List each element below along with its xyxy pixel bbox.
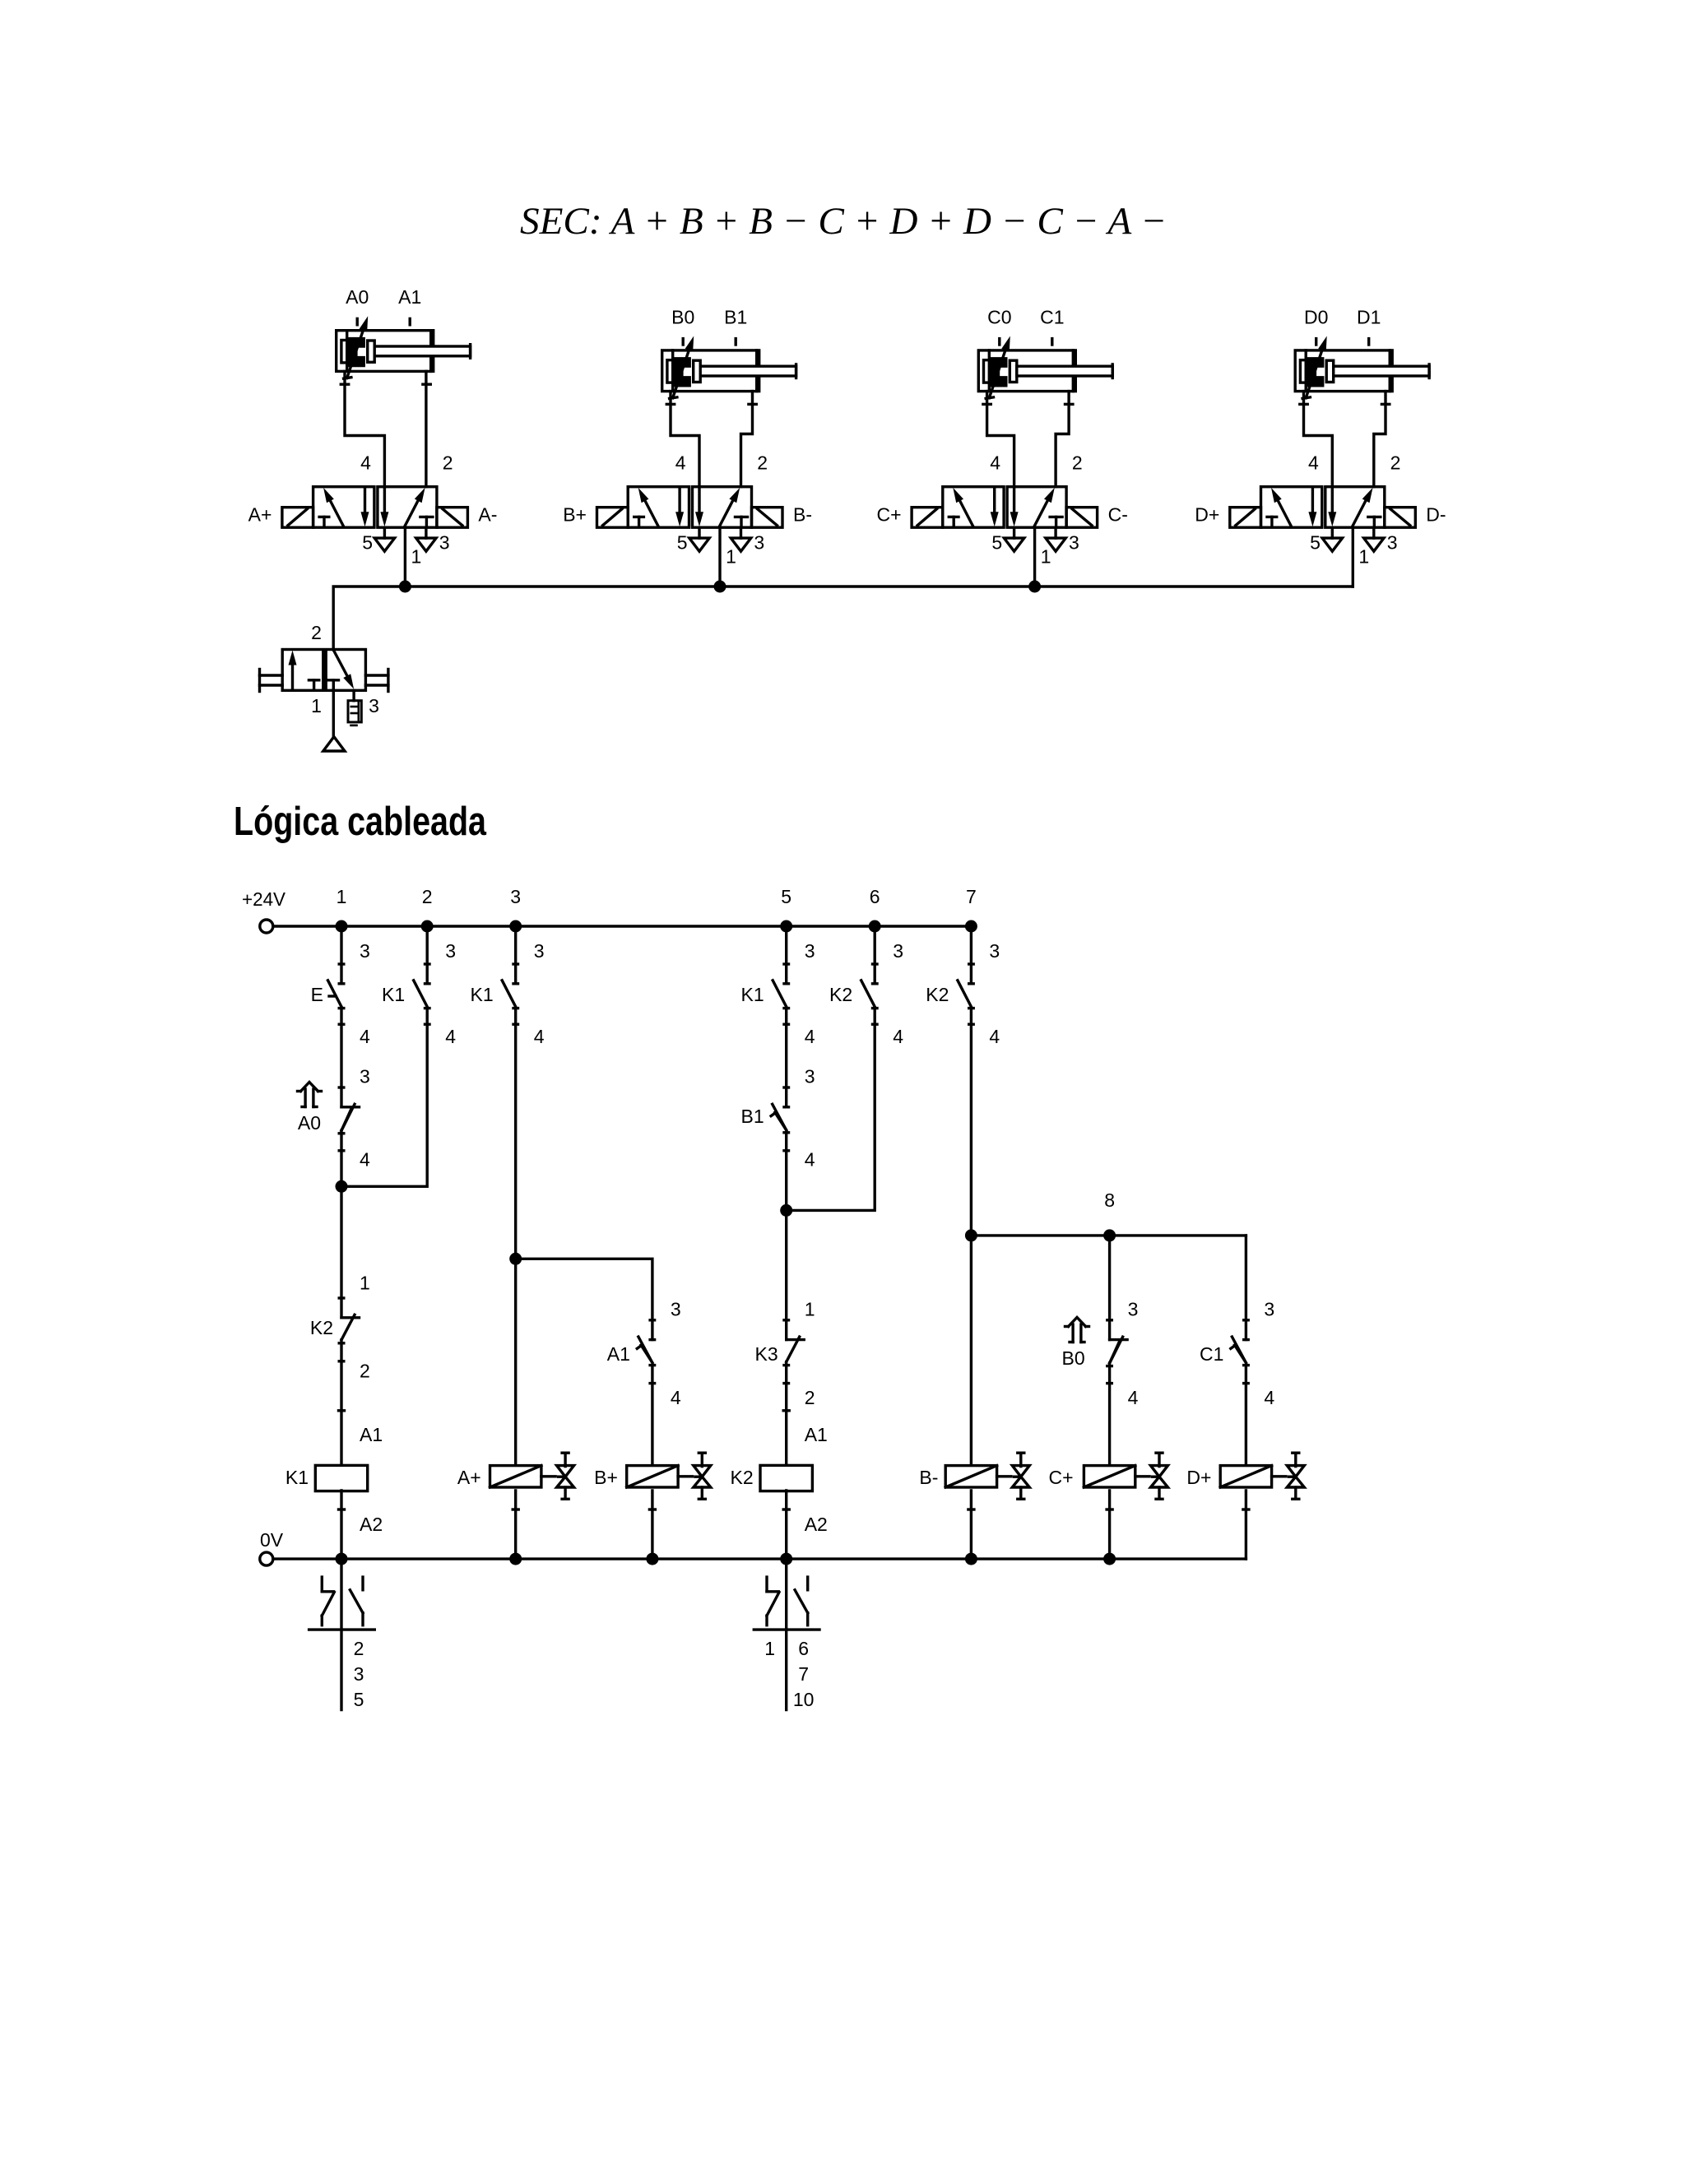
wire cylinder A left port to valve port 4 [345, 371, 384, 486]
svg-text:D-: D- [1426, 504, 1446, 526]
junction rung7 / branch bus [965, 1229, 977, 1241]
svg-text:K1: K1 [471, 984, 494, 1005]
svg-text:3: 3 [369, 695, 379, 716]
svg-text:3: 3 [445, 940, 456, 962]
svg-text:1: 1 [337, 886, 347, 907]
relay coil K1 [315, 1465, 367, 1491]
actuated marker (arrow) for B0 [1065, 1318, 1089, 1342]
rung 4 wire (solenoid to 0V) [651, 1491, 653, 1559]
svg-text:K2: K2 [310, 1317, 333, 1338]
svg-text:K2: K2 [731, 1467, 754, 1488]
sensor position tick D1 [1367, 339, 1370, 345]
detent lever left [260, 670, 283, 692]
svg-text:4: 4 [671, 1387, 681, 1408]
branch bus wire rung7 to C1 branch [971, 1234, 1246, 1236]
svg-text:K2: K2 [926, 984, 949, 1005]
svg-text:+24V: +24V [242, 888, 286, 910]
junction bus / valve B [714, 581, 726, 593]
rung 1 wire (E to A0) [340, 1009, 342, 1107]
svg-text:5: 5 [677, 532, 688, 554]
svg-text:5: 5 [991, 532, 1002, 554]
svg-text:2: 2 [757, 452, 768, 474]
sensor position tick B0 [682, 339, 685, 345]
svg-text:2: 2 [1072, 452, 1083, 474]
svg-text:4: 4 [989, 1026, 1000, 1047]
junction +24V rail / rung 6 [869, 920, 881, 933]
rung 9 wire (C1 to solenoid D+) [1245, 1366, 1247, 1464]
limit switch contact C1 (NO) [1231, 1320, 1248, 1384]
contact K1 rung3 (NO) [502, 964, 518, 1024]
branch wire rung3 to rung4 (A1 branch) [516, 1259, 652, 1339]
svg-text:A0: A0 [346, 286, 369, 308]
svg-text:1: 1 [726, 546, 736, 568]
cylinder port pin ticks [666, 403, 674, 406]
junction 0V / rung7 [965, 1553, 977, 1565]
svg-text:8: 8 [1104, 1189, 1115, 1211]
svg-text:3: 3 [671, 1299, 681, 1320]
limit switch contact A1 (NO) [637, 1320, 654, 1384]
contact K3 (NC) [784, 1320, 804, 1384]
svg-text:A2: A2 [360, 1514, 383, 1535]
svg-text:K2: K2 [829, 984, 852, 1005]
rung 1 wire (coil to 0V) [340, 1491, 342, 1559]
sensor position tick A0 [356, 318, 359, 324]
wire cylinder B right port to valve port 2 [741, 392, 753, 487]
svg-text:2: 2 [443, 452, 453, 474]
rung 2 wire (rail to K1) [426, 926, 429, 984]
junction +24V rail / rung 7 [965, 920, 977, 933]
svg-text:B+: B+ [563, 504, 587, 526]
junction +24V rail / rung 1 [336, 920, 348, 933]
cylinder port pin ticks [983, 403, 991, 406]
relay coil K2 [760, 1465, 812, 1491]
pin tick C+ [1107, 1508, 1112, 1510]
svg-text:3: 3 [360, 1066, 370, 1087]
junction 0V / rung8 [1103, 1553, 1116, 1565]
pin tick D+ [1243, 1508, 1249, 1510]
sensor position tick A1 [409, 318, 411, 324]
exhaust port 5 [374, 527, 394, 551]
svg-text:3: 3 [1387, 532, 1398, 554]
svg-text:2: 2 [311, 622, 322, 643]
svg-text:4: 4 [805, 1149, 815, 1171]
supply bus wire [333, 587, 1353, 650]
exhaust port 3 [731, 527, 750, 551]
svg-text:K1: K1 [382, 984, 405, 1005]
svg-text:3: 3 [1264, 1299, 1274, 1320]
rung 1 wire (K2 to coil K1) [340, 1340, 342, 1464]
junction 0V / rung5 [780, 1553, 792, 1565]
muffler on port 3 [348, 690, 361, 726]
svg-text:3: 3 [805, 940, 815, 962]
svg-text:Lógica cableada: Lógica cableada [234, 800, 487, 844]
svg-text:C+: C+ [877, 504, 902, 526]
exhaust port 5 [1322, 527, 1342, 551]
pilot solenoid C+ [912, 508, 943, 528]
contact E (NO) [328, 964, 344, 1024]
svg-text:B0: B0 [1062, 1347, 1085, 1369]
svg-text:2: 2 [805, 1387, 815, 1408]
svg-text:4: 4 [675, 452, 686, 474]
+24V supply rail [260, 920, 273, 933]
svg-text:B+: B+ [594, 1467, 618, 1488]
svg-text:B-: B- [793, 504, 812, 526]
svg-text:4: 4 [990, 452, 1000, 474]
svg-text:A2: A2 [805, 1514, 828, 1535]
cylinder D (double-acting, magnetic piston) [1295, 336, 1429, 399]
svg-text:6: 6 [798, 1638, 809, 1659]
svg-text:1: 1 [360, 1273, 370, 1294]
valve solenoid C+ [1084, 1453, 1167, 1499]
wire cylinder D left port to valve port 4 [1304, 392, 1333, 487]
rung 8 wire (B0 to solenoid C+) [1108, 1363, 1111, 1464]
svg-text:5: 5 [1310, 532, 1321, 554]
svg-text:4: 4 [893, 1026, 903, 1047]
junction 0V / rung4 [646, 1553, 658, 1565]
svg-text:3: 3 [510, 886, 521, 907]
svg-text:A+: A+ [457, 1467, 481, 1488]
svg-text:10: 10 [793, 1689, 815, 1710]
5/2-way valve VC [943, 487, 1066, 528]
rung 3 wire (solenoid to 0V) [514, 1491, 517, 1559]
svg-text:3: 3 [354, 1663, 364, 1685]
svg-text:B0: B0 [671, 306, 694, 327]
svg-text:1: 1 [311, 695, 322, 716]
junction 0V / rung1 [336, 1553, 348, 1565]
rung 7 wire (rail to K2) [970, 926, 972, 984]
0V return rail [260, 1552, 273, 1565]
actuated marker (arrow) for A0 [298, 1083, 322, 1107]
svg-text:D1: D1 [1357, 306, 1381, 327]
svg-text:1: 1 [411, 546, 422, 568]
rung 5 wire (K1 to B1) [785, 1009, 787, 1107]
svg-text:5: 5 [354, 1689, 364, 1710]
junction bus / valve A [399, 581, 411, 593]
svg-text:3: 3 [805, 1066, 815, 1087]
junction 0V / rung3 [509, 1553, 522, 1565]
junction +24V rail / rung 5 [780, 920, 792, 933]
svg-text:4: 4 [445, 1026, 456, 1047]
contact K2 rung7 (NO) [958, 964, 973, 1024]
wire valve D port 1 to supply bus [1352, 527, 1354, 587]
svg-text:K1: K1 [285, 1467, 309, 1488]
svg-text:3: 3 [754, 532, 764, 554]
rung 2 wire (K1 down and left to rung1 junction) [341, 1009, 427, 1187]
5/2-way valve VD [1261, 487, 1385, 528]
cylinder B (double-acting, magnetic piston) [662, 336, 796, 399]
exhaust port 3 [1364, 527, 1384, 551]
wire cylinder C right port to valve port 2 [1056, 392, 1069, 487]
5/2-way valve VA [313, 487, 437, 528]
svg-text:K1: K1 [741, 984, 764, 1005]
svg-text:B1: B1 [741, 1106, 764, 1127]
svg-text:A+: A+ [248, 504, 272, 526]
pilot solenoid D- [1385, 508, 1416, 528]
limit switch contact B1 (NO) [771, 1087, 788, 1151]
5/2-way valve VB [628, 487, 751, 528]
junction +24V rail / rung 2 [421, 920, 434, 933]
valve solenoid A+ [490, 1453, 574, 1499]
svg-text:D0: D0 [1304, 306, 1328, 327]
sensor position tick C0 [998, 339, 1000, 345]
contact K2 rung6 (NO) [861, 964, 877, 1024]
svg-text:C1: C1 [1040, 306, 1064, 327]
wire valve C port 1 to supply bus [1033, 527, 1036, 587]
sensor position tick B1 [735, 339, 737, 345]
pin tick K1 [339, 1508, 345, 1510]
compressed air source [323, 737, 345, 751]
valve solenoid B+ [627, 1453, 711, 1499]
limit switch contact B0 (actuated) [1107, 1320, 1127, 1384]
svg-text:C0: C0 [987, 306, 1011, 327]
svg-text:3: 3 [360, 940, 370, 962]
wire cylinder D right port to valve port 2 [1374, 392, 1386, 487]
rung 5 wire (B1 to junction) [785, 1133, 787, 1211]
svg-text:B-: B- [919, 1467, 938, 1488]
svg-text:B1: B1 [724, 306, 747, 327]
rung 1 wire (rail to E) [340, 926, 342, 984]
valve solenoid D+ [1220, 1453, 1304, 1499]
svg-text:3: 3 [534, 940, 545, 962]
wire valve B port 1 to supply bus [718, 527, 721, 587]
pin tick K2 [783, 1508, 789, 1510]
pilot solenoid B- [752, 508, 783, 528]
sensor position tick C1 [1051, 339, 1053, 345]
wire joint tick [339, 1409, 345, 1412]
svg-text:7: 7 [966, 886, 977, 907]
svg-text:3: 3 [1128, 1299, 1139, 1320]
wire joint tick [783, 1409, 789, 1412]
rung 5 wire (coil to 0V) [785, 1491, 787, 1559]
svg-text:7: 7 [798, 1663, 809, 1685]
svg-text:SEC: A + B + B − C + D + D − C: SEC: A + B + B − C + D + D − C − A − [520, 200, 1167, 243]
svg-text:C-: C- [1108, 504, 1128, 526]
rung 1 wire (A0 to junction) [340, 1130, 342, 1186]
pilot solenoid A- [437, 508, 468, 528]
rung 3 wire (rail to K1) [514, 926, 517, 984]
svg-text:A1: A1 [398, 286, 421, 308]
pilot solenoid A+ [282, 508, 313, 528]
junction rung3 / branch rung4 [509, 1253, 522, 1265]
rung 5 wire (K3 to coil K2) [785, 1362, 787, 1464]
svg-text:4: 4 [360, 1149, 370, 1171]
svg-text:D+: D+ [1186, 1467, 1211, 1488]
rung 7 wire (solenoid to 0V) [970, 1491, 972, 1559]
cylinder C (double-acting, magnetic piston) [978, 336, 1112, 399]
svg-text:1: 1 [1358, 546, 1369, 568]
relay contact cross-reference K1 [309, 1559, 375, 1710]
svg-text:3: 3 [893, 940, 903, 962]
svg-text:A1: A1 [805, 1424, 828, 1445]
junction rung1/rung2 [336, 1180, 348, 1193]
svg-text:0V: 0V [260, 1529, 284, 1551]
wire valve V0 port 1 to air source [332, 690, 335, 736]
svg-text:A0: A0 [298, 1112, 321, 1134]
rung 1 wire (junction to K2) [340, 1186, 342, 1318]
pin tick B+ [649, 1508, 655, 1510]
svg-text:4: 4 [360, 1026, 370, 1047]
rung 6 wire (K2 down and left to rung5 junction) [787, 1009, 875, 1211]
svg-text:D+: D+ [1195, 504, 1219, 526]
svg-text:5: 5 [781, 886, 791, 907]
svg-text:1: 1 [805, 1299, 815, 1320]
pushbutton plunger E [329, 995, 336, 997]
svg-text:3: 3 [989, 940, 1000, 962]
svg-text:2: 2 [1390, 452, 1401, 474]
rung 8 wire (branch bus to B0) [1108, 1236, 1111, 1340]
3/2-way hand valve V0 (supply) [282, 650, 365, 691]
exhaust port 3 [416, 527, 436, 551]
svg-text:4: 4 [1308, 452, 1319, 474]
svg-text:4: 4 [1128, 1387, 1139, 1408]
rung 5 wire (junction to K3) [785, 1210, 787, 1339]
svg-text:4: 4 [534, 1026, 545, 1047]
detent lever right [365, 670, 388, 692]
pilot solenoid B+ [597, 508, 629, 528]
valve solenoid B- [945, 1453, 1029, 1499]
svg-text:A1: A1 [607, 1343, 630, 1365]
contact K2 (NC) [339, 1298, 359, 1361]
svg-text:1: 1 [1041, 546, 1051, 568]
rung 6 wire (rail to K2) [873, 926, 875, 984]
exhaust port 5 [1004, 527, 1024, 551]
contact K1 rung2 (NO) [414, 964, 429, 1024]
rung 4 wire (A1 to solenoid B+) [651, 1366, 653, 1464]
svg-text:1: 1 [764, 1638, 775, 1659]
rung 9 wire (branch bus to C1) [1245, 1236, 1247, 1340]
svg-text:4: 4 [805, 1026, 815, 1047]
junction rung5/rung6 [780, 1204, 792, 1217]
cylinder port pin ticks [1300, 403, 1307, 406]
rung 5 wire (rail to K1) [785, 926, 787, 984]
pin tick A+ [513, 1508, 518, 1510]
relay contact cross-reference K2 [754, 1559, 819, 1710]
rung 8 wire (solenoid to 0V) [1108, 1491, 1111, 1559]
junction +24V rail / rung 3 [509, 920, 522, 933]
wire cylinder C left port to valve port 4 [987, 392, 1014, 487]
svg-text:4: 4 [360, 452, 371, 474]
svg-text:2: 2 [354, 1638, 364, 1659]
svg-text:A-: A- [478, 504, 497, 526]
pin tick B- [968, 1508, 974, 1510]
contact K1 rung5 (NO) [773, 964, 788, 1024]
rung 7 wire (K2 to solenoid B-) [970, 1009, 972, 1464]
wire cylinder A right port to valve port 2 [425, 371, 427, 486]
svg-text:3: 3 [1069, 532, 1079, 554]
pilot solenoid D+ [1230, 508, 1261, 528]
rung 9 wire (solenoid to 0V) [1245, 1491, 1247, 1559]
wire valve A port 1 to supply bus [404, 527, 406, 587]
sensor position tick D0 [1315, 339, 1317, 345]
svg-text:C1: C1 [1200, 1343, 1223, 1365]
cylinder port pin ticks [341, 383, 348, 386]
cylinder A (double-acting, magnetic piston) [337, 316, 471, 378]
svg-text:5: 5 [362, 532, 373, 554]
svg-text:E: E [311, 984, 323, 1005]
exhaust port 5 [689, 527, 709, 551]
svg-text:K3: K3 [755, 1343, 778, 1365]
rung 3 wire (K1 to solenoid A+) [514, 1009, 517, 1464]
svg-text:6: 6 [870, 886, 880, 907]
svg-text:C+: C+ [1049, 1467, 1074, 1488]
exhaust port 3 [1046, 527, 1065, 551]
svg-text:2: 2 [422, 886, 433, 907]
svg-text:3: 3 [439, 532, 450, 554]
pilot solenoid C- [1066, 508, 1098, 528]
junction bus / valve C [1028, 581, 1041, 593]
junction branch bus / rung8 [1103, 1229, 1116, 1241]
svg-text:2: 2 [360, 1361, 370, 1382]
wire cylinder B left port to valve port 4 [671, 392, 699, 487]
svg-text:A1: A1 [360, 1424, 383, 1445]
svg-text:4: 4 [1264, 1387, 1274, 1408]
limit switch contact A0 (actuated) [339, 1087, 359, 1151]
